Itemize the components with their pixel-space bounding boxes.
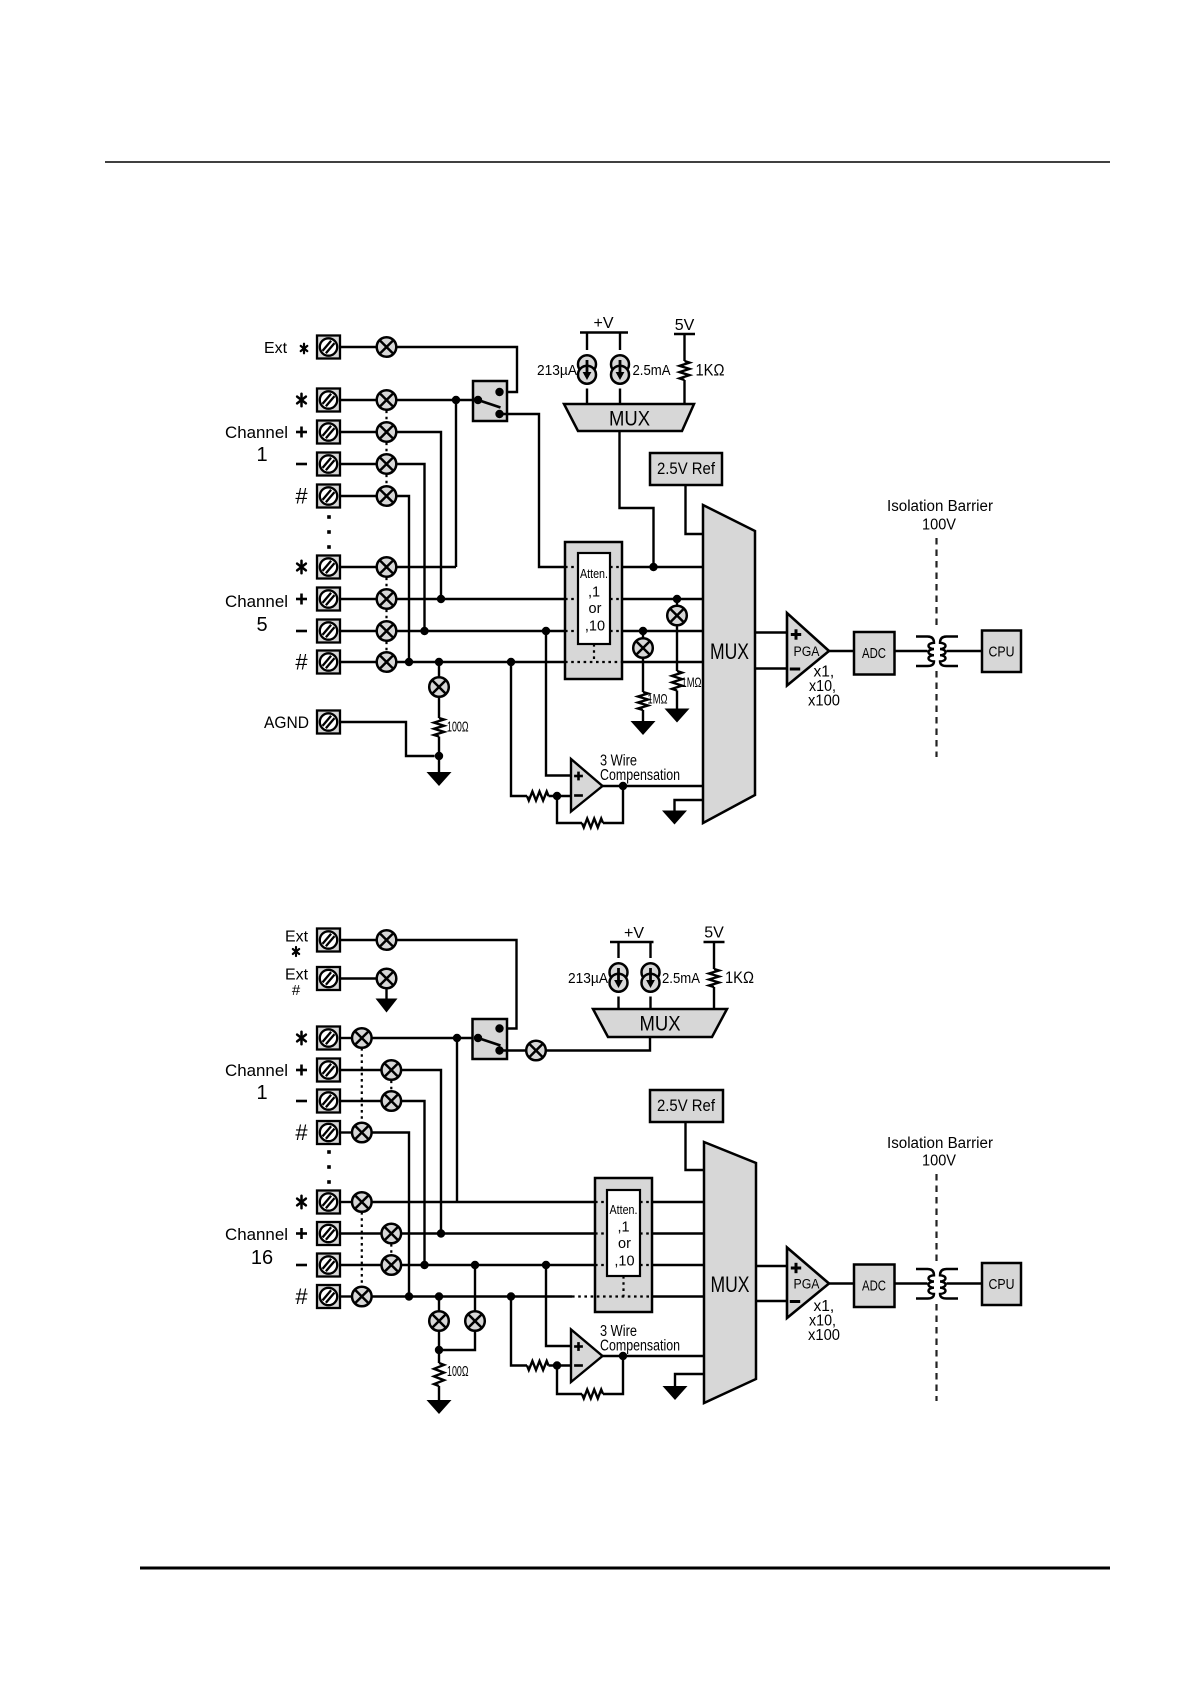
switch lever (bottom) [478, 1038, 501, 1046]
ground - bias (top) [631, 721, 656, 735]
PGA + marking (top) [791, 629, 801, 639]
label * for Ext terminal [301, 344, 308, 354]
wire [340, 495, 377, 497]
resistor 1Kohm (bottom) [709, 969, 719, 987]
CPU block (top) [982, 631, 1021, 673]
svg-text:,10: ,10 [614, 1254, 634, 1270]
fuse Ch1 - (top) [377, 454, 397, 474]
wire # ch1 down [396, 496, 409, 662]
wire - to MUX (bottom) [652, 1264, 704, 1266]
current source 2.5mA (bottom) [642, 963, 660, 991]
wire MUX ground stub (top) [675, 800, 704, 811]
resistor 1Mohm - (top) [638, 692, 648, 710]
fuse Ch16 + (bottom) [382, 1224, 402, 1244]
wire [340, 1100, 382, 1102]
wire * bus vertical (top) [455, 400, 457, 567]
wire # ch5 row [396, 661, 565, 663]
svg-text:Channel: Channel [225, 1225, 288, 1244]
label * channel 5 (top) [297, 561, 306, 573]
svg-text:1KΩ: 1KΩ [725, 968, 754, 987]
wire [676, 599, 678, 606]
wire # sense to comp resistor [511, 662, 527, 796]
wire 2.5V ref to MUX (bottom) [686, 1122, 705, 1170]
svg-text:Channel: Channel [225, 592, 288, 611]
wire [619, 333, 621, 351]
fuse Ch5 + (top) [377, 589, 397, 609]
dotted link fuse chain ch16 (bottom) [361, 1212, 363, 1287]
dotted link +- fuses ch1 (bottom) [390, 1081, 392, 1092]
wire [649, 997, 651, 1010]
terminal Ch1 - (bottom) [317, 1090, 340, 1113]
svg-text:213µA: 213µA [537, 362, 577, 379]
fuse Ch1 * (bottom) [352, 1028, 372, 1048]
wire # to MUX (top) [622, 661, 703, 663]
wire [340, 1232, 382, 1234]
wire # sense to comp resistor (bottom) [511, 1297, 527, 1366]
junction - bus to ch5 [420, 627, 428, 635]
svg-text:1MΩ: 1MΩ [682, 674, 702, 690]
wire transformer to CPU (top) [947, 650, 983, 652]
terminal Ch16 * (bottom) [317, 1191, 340, 1214]
junction comp - input (top) [553, 792, 561, 800]
dotted link +- fuses ch16 (bottom) [390, 1244, 392, 1255]
terminal Ext* (bottom) [317, 929, 340, 952]
wire [385, 988, 387, 998]
wire * ch1 to switch node [396, 399, 478, 401]
fuse + bias (top) [667, 606, 687, 626]
footer rule [140, 1567, 1110, 1570]
wire comp output to MUX (top) [603, 785, 704, 787]
wire [340, 399, 377, 401]
wire 2.5V ref to MUX (top) [686, 485, 704, 534]
junction # bus ch16 [405, 1292, 413, 1300]
wire [683, 334, 685, 361]
svg-text:Ext: Ext [264, 340, 288, 357]
dotted link +-- fuses (ch1 top) [385, 443, 387, 454]
dotted * path in atten (top) [565, 566, 578, 568]
wire [586, 333, 588, 351]
svg-text:5V: 5V [675, 317, 695, 334]
svg-text:Isolation Barrier: Isolation Barrier [887, 498, 993, 515]
wire + to MUX (top) [622, 598, 703, 600]
label * channel 16 (bottom) [297, 1196, 306, 1208]
svg-text:100Ω: 100Ω [447, 1363, 469, 1380]
wire feedback return (top) [557, 796, 582, 823]
isolation barrier dashed line lower (top) [935, 671, 937, 757]
fuse switch output (bottom) [526, 1041, 546, 1061]
label + channel 5 (top) [296, 594, 307, 605]
svg-text:1: 1 [256, 444, 267, 466]
wire [340, 431, 377, 433]
wire - sense to comp + [546, 631, 571, 776]
wire - ch16 row (bottom) [401, 1264, 595, 1266]
header rule [105, 161, 1110, 163]
resistor comp feedback (bottom) [582, 1390, 603, 1399]
ground Ext# (bottom) [376, 999, 398, 1013]
ground MUX (top) [662, 811, 687, 825]
label * channel 1 (top) [297, 394, 306, 406]
op-amp - marking (bottom) [574, 1364, 583, 1367]
resistor 100ohm (bottom) [434, 1363, 444, 1386]
terminal Ch5 # (top) [317, 651, 340, 674]
power MUX (bottom) [593, 1009, 727, 1037]
terminal Ext* (top) [317, 336, 340, 359]
terminal AGND (top) [317, 711, 340, 734]
junction - shield chain [471, 1261, 479, 1269]
ADC block (top) [854, 632, 895, 675]
wire [586, 389, 588, 405]
wire - to MUX (top) [622, 630, 703, 632]
wire # ch16 row (bottom) [372, 1295, 572, 1297]
dotted * path atten (bottom) [595, 1201, 607, 1203]
svg-text:1: 1 [256, 1082, 267, 1104]
resistor 1Mohm + (top) [672, 671, 682, 691]
switch common pin [474, 396, 482, 404]
terminal Ch1 * (top) [317, 389, 340, 412]
label - channel 1 (top) [296, 463, 307, 466]
junction * bus (bottom) [453, 1034, 461, 1042]
svg-text:AGND: AGND [264, 713, 309, 732]
svg-text:#: # [295, 1120, 308, 1145]
dotted * path in atten (top) [610, 566, 622, 568]
wire MUX out + (top) [755, 631, 787, 633]
transformer isolation (top) [916, 637, 958, 667]
switch throw pin Ext (bottom) [495, 1024, 503, 1032]
wire MUX ground stub (bottom) [675, 1374, 704, 1386]
ellipsis between channel groups (top) [327, 515, 331, 549]
label - channel 5 (top) [296, 630, 307, 633]
svg-text:Ext: Ext [285, 967, 309, 984]
svg-text:CPU: CPU [989, 644, 1015, 661]
PGA amplifier (bottom) [787, 1248, 829, 1319]
wire PGA to ADC (top) [829, 650, 854, 652]
svg-text:MUX: MUX [609, 408, 650, 431]
wire * to MUX (top) [622, 566, 703, 568]
wire [642, 710, 644, 721]
current source 213uA (bottom) [610, 963, 628, 991]
wire [438, 737, 440, 773]
fuse Ch1 + (bottom) [382, 1060, 402, 1080]
svg-text:5V: 5V [704, 925, 724, 942]
wire switch to fuse (bottom) [500, 1049, 527, 1051]
wire feedback down (bottom) [603, 1356, 623, 1394]
svg-text:MUX: MUX [640, 1013, 681, 1036]
wire [549, 795, 572, 797]
ground MUX (bottom) [663, 1386, 688, 1400]
switch throw pin Ext [495, 388, 503, 396]
wire * ch1 to switch (bottom) [372, 1037, 478, 1039]
wire [642, 658, 644, 692]
svg-text:2.5mA: 2.5mA [662, 970, 700, 987]
fuse Ch16 - (bottom) [382, 1255, 402, 1275]
attenuator outer box (bottom) [595, 1178, 652, 1312]
wire Ext* to switch (bottom) [396, 940, 516, 1029]
fuse on # shield line (top) [429, 677, 449, 697]
label - channel 1 (bottom) [296, 1100, 307, 1103]
svg-text:Ext: Ext [285, 929, 309, 946]
label - channel 16 (bottom) [296, 1264, 307, 1267]
terminal Ext# (bottom) [317, 967, 340, 990]
svg-text:100V: 100V [922, 1153, 957, 1170]
op-amp + marking (bottom) [574, 1342, 583, 1351]
wire [438, 662, 440, 677]
power MUX (top) [564, 404, 694, 431]
junction AGND node [435, 752, 443, 760]
junction # to comp resistor [507, 658, 515, 666]
wire [340, 1264, 382, 1266]
svg-text:2.5mA: 2.5mA [633, 362, 671, 379]
wire [340, 977, 377, 979]
junction + bus ch16 [437, 1229, 445, 1237]
wire [340, 1037, 352, 1039]
dotted link --# fuses (ch5 top) [385, 642, 387, 653]
svg-text:PGA: PGA [794, 644, 820, 659]
wire switch output [500, 414, 566, 567]
svg-text:Channel: Channel [225, 1061, 288, 1080]
switch common pin (bottom) [474, 1034, 482, 1042]
ground 100ohm (bottom) [427, 1400, 452, 1414]
dotted # path in atten (top) [565, 661, 622, 663]
fuse Ch5 # (top) [377, 652, 397, 672]
svg-text:or: or [589, 601, 602, 617]
5V rail (bottom) [704, 941, 725, 943]
wire + ch1 down [396, 432, 441, 599]
wire feedback return (bottom) [557, 1366, 582, 1395]
svg-text:100V: 100V [922, 517, 957, 534]
wire [340, 346, 377, 348]
wire * ch5 row [396, 566, 456, 568]
junction # bus to ch5 [405, 658, 413, 666]
fuse Ext# (bottom) [377, 969, 397, 989]
svg-text:1KΩ: 1KΩ [696, 361, 725, 380]
fuse Ch1 # (top) [377, 486, 397, 506]
fuse Ch16 # (bottom) [352, 1287, 372, 1307]
wire Ext* to switch [396, 347, 517, 392]
label * Ext (bottom) [293, 947, 299, 956]
wire [340, 1201, 352, 1203]
dotted - path in atten (top) [565, 630, 578, 632]
svg-text:1MΩ: 1MΩ [648, 691, 668, 707]
wire MUX out - (bottom) [756, 1300, 787, 1302]
wire [683, 380, 685, 404]
junction - bus ch16 [420, 1261, 428, 1269]
wire comp output to MUX (bottom) [603, 1355, 705, 1357]
ground AGND (top) [427, 772, 452, 786]
5V rail (top) [674, 333, 695, 335]
wire [619, 389, 621, 405]
junction excitation node (top) [649, 563, 657, 571]
CPU block (bottom) [982, 1263, 1021, 1305]
wire - ch1 down (bottom) [401, 1101, 424, 1265]
switch throw pin out (bottom) [495, 1046, 503, 1054]
terminal Ch1 * (bottom) [317, 1027, 340, 1050]
wire + ch1 down (bottom) [401, 1070, 441, 1234]
label * channel 1 (bottom) [297, 1032, 306, 1044]
op-amp 3-wire compensation (bottom) [571, 1330, 603, 1383]
wire [617, 942, 619, 958]
wire + ch5 row [396, 598, 565, 600]
wire - ch5 row [396, 630, 565, 632]
wire * ch16 row (bottom) [372, 1201, 595, 1203]
junction comp - input (bottom) [553, 1361, 561, 1369]
wire feedback down (top) [603, 786, 623, 823]
dotted - path atten (bottom) [640, 1264, 652, 1266]
svg-text:#: # [292, 982, 301, 999]
terminal Ch5 + (top) [317, 588, 340, 611]
terminal Ch1 - (top) [317, 453, 340, 476]
PGA - marking (bottom) [790, 1300, 800, 1303]
svg-text:,1: ,1 [617, 1220, 629, 1236]
junction # shield chain [435, 1292, 443, 1300]
terminal Ch16 + (bottom) [317, 1222, 340, 1245]
fuse - bias (top) [633, 638, 653, 658]
svg-text:Channel: Channel [225, 423, 288, 442]
attenuator inner box (bottom) [607, 1190, 640, 1276]
junction + bus to ch5 [437, 595, 445, 603]
op-amp - marking (top) [574, 794, 583, 797]
svg-text:2.5V Ref: 2.5V Ref [657, 460, 715, 478]
wire [340, 939, 377, 941]
junction - bias node (top) [639, 627, 647, 635]
fuse Ch1 # (bottom) [352, 1123, 372, 1143]
fuse Ch5 - (top) [377, 621, 397, 641]
junction comp feedback (bottom) [619, 1352, 627, 1360]
wire * bus vertical (bottom) [456, 1038, 458, 1202]
wire [438, 697, 440, 718]
input MUX (bottom) [704, 1142, 756, 1403]
label + channel 1 (top) [296, 427, 307, 438]
resistor comp input (bottom) [527, 1361, 549, 1370]
junction comp feedback (top) [619, 782, 627, 790]
resistor comp feedback (top) [582, 819, 603, 828]
wire [340, 463, 377, 465]
svg-text:PGA: PGA [794, 1277, 820, 1292]
wire [438, 1297, 440, 1312]
svg-text:Atten.: Atten. [580, 566, 608, 581]
dotted link +-- fuses (ch5 top) [385, 610, 387, 621]
svg-text:x100: x100 [808, 1327, 840, 1344]
terminal Ch16 # (bottom) [317, 1285, 340, 1308]
ellipsis between channel groups (bottom) [327, 1150, 331, 1184]
op-amp 3-wire compensation (top) [571, 759, 603, 812]
dotted select line atten (bottom) [622, 1276, 624, 1297]
fuse on Ext* line (top) [377, 337, 397, 357]
terminal Ch1 # (bottom) [317, 1121, 340, 1144]
PGA amplifier (top) [787, 613, 829, 686]
transformer isolation (bottom) [916, 1269, 958, 1299]
svg-text:213µA: 213µA [568, 970, 608, 987]
fuse Ext* (bottom) [377, 930, 397, 950]
switch S1 body (top) [473, 381, 507, 421]
junction + bias node (top) [673, 595, 681, 603]
svg-text:Compensation: Compensation [600, 767, 680, 784]
wire [340, 1131, 352, 1133]
wire [617, 997, 619, 1010]
junction # to comp (bottom) [507, 1292, 515, 1300]
ground + bias (top) [665, 709, 690, 723]
svg-text:+V: +V [593, 315, 613, 332]
isolation barrier dashed line (top) [935, 538, 937, 630]
2.5V reference box (bottom) [650, 1090, 723, 1122]
wire [340, 1295, 352, 1297]
wire - sense to comp + (bottom) [546, 1265, 571, 1346]
wire [474, 1265, 476, 1311]
dotted + path atten (bottom) [595, 1232, 607, 1234]
svg-text:5: 5 [256, 614, 267, 636]
dotted + path in atten (top) [565, 598, 578, 600]
wire [438, 1331, 440, 1363]
wire fuse to power mux (bottom) [546, 1037, 650, 1051]
+V rail (bottom) [610, 941, 654, 943]
PGA - marking (top) [790, 668, 800, 671]
terminal Ch5 - (top) [317, 620, 340, 643]
wire [642, 631, 644, 638]
dotted * path atten (bottom) [640, 1201, 652, 1203]
wire # to MUX (bottom) [652, 1295, 704, 1297]
svg-text:CPU: CPU [989, 1276, 1015, 1293]
svg-text:MUX: MUX [710, 639, 749, 664]
current source 213uA (top) [578, 355, 596, 383]
svg-text:#: # [295, 1284, 308, 1309]
fuse Ch16 * (bottom) [352, 1192, 372, 1212]
wire PGA to ADC (bottom) [829, 1282, 854, 1284]
attenuator inner box [578, 553, 610, 644]
fuse Ch1 - (bottom) [382, 1091, 402, 1111]
PGA + marking (bottom) [791, 1263, 801, 1273]
wire MUX out + (bottom) [756, 1265, 787, 1267]
terminal Ch16 - (bottom) [317, 1254, 340, 1277]
isolation barrier dashed line lower (bottom) [935, 1304, 937, 1401]
svg-text:Isolation Barrier: Isolation Barrier [887, 1135, 993, 1152]
svg-text:Atten.: Atten. [610, 1202, 638, 1217]
wire [676, 625, 678, 671]
fuse # shield (bottom) [429, 1311, 449, 1331]
junction shield node (bottom) [435, 1346, 443, 1354]
svg-text:,10: ,10 [585, 619, 605, 635]
svg-text:Compensation: Compensation [600, 1338, 680, 1355]
wire * to MUX (bottom) [652, 1201, 704, 1203]
wire + to MUX (bottom) [652, 1232, 704, 1234]
dotted select line in atten (top) [593, 644, 595, 662]
wire [438, 1386, 440, 1400]
terminal Ch5 * (top) [317, 556, 340, 579]
dotted - path in atten (top) [610, 630, 622, 632]
dotted + path in atten (top) [610, 598, 622, 600]
wire [340, 566, 377, 568]
dotted link *-+ fuses (ch1 top) [385, 411, 387, 422]
ADC block (bottom) [854, 1265, 895, 1308]
terminal Ch1 # (top) [317, 485, 340, 508]
wire [340, 661, 377, 663]
wire [340, 630, 377, 632]
switch throw pin out [495, 410, 503, 418]
svg-text:100Ω: 100Ω [447, 719, 469, 736]
dotted link --# fuses (ch1 top) [385, 475, 387, 486]
input MUX (top) [703, 505, 755, 823]
wire - ch1 down [396, 464, 424, 631]
dotted link fuse chain ch1 (bottom) [361, 1048, 363, 1123]
wire ADC to transformer (bottom) [895, 1282, 928, 1284]
dotted # path atten (bottom) [572, 1295, 652, 1297]
svg-text:,1: ,1 [588, 585, 600, 601]
wire [713, 942, 715, 969]
svg-text:ADC: ADC [862, 1278, 886, 1295]
svg-text:ADC: ADC [862, 645, 886, 662]
junction - to comp (bottom) [542, 1261, 550, 1269]
switch lever [478, 400, 501, 408]
terminal Ch1 + (bottom) [317, 1059, 340, 1082]
wire ADC to transformer (top) [895, 650, 928, 652]
